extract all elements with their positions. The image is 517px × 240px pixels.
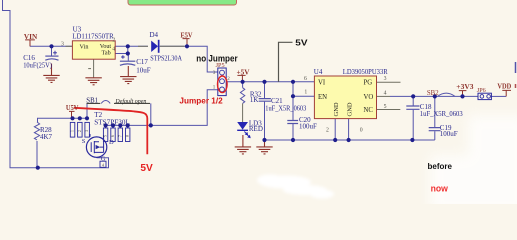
svg-text:3: 3 (85, 130, 89, 132)
svg-text:U4: U4 (314, 68, 323, 76)
svg-text:+5V: +5V (237, 67, 251, 76)
svg-text:VI: VI (318, 80, 326, 87)
svg-text:LD1117S50TR: LD1117S50TR (72, 33, 114, 41)
svg-text:GND: GND (347, 102, 354, 116)
svg-text:1: 1 (71, 130, 75, 132)
svg-text:SB2: SB2 (427, 90, 439, 97)
svg-text:LD39050PU33R: LD39050PU33R (343, 68, 388, 76)
svg-text:G: G (101, 156, 106, 163)
svg-text:2: 2 (326, 127, 329, 133)
svg-text:7: 7 (118, 135, 122, 137)
svg-text:+3V3: +3V3 (456, 83, 474, 91)
svg-text:5V: 5V (295, 38, 308, 48)
svg-text:JP6: JP6 (477, 87, 486, 94)
svg-text:4K7: 4K7 (40, 133, 53, 141)
svg-text:100uF: 100uF (299, 123, 317, 131)
svg-text:1: 1 (304, 89, 307, 95)
svg-text:EN: EN (318, 94, 327, 101)
svg-text:6: 6 (111, 135, 115, 137)
svg-text:PG: PG (364, 80, 373, 87)
svg-text:no Jumper: no Jumper (196, 54, 238, 64)
svg-text:VIN: VIN (24, 32, 38, 41)
svg-text:4: 4 (112, 46, 115, 52)
svg-text:5V: 5V (140, 162, 152, 174)
svg-text:before: before (428, 161, 453, 171)
svg-text:NC: NC (364, 107, 374, 114)
svg-text:Tab: Tab (102, 49, 111, 56)
svg-text:U5V: U5V (66, 103, 79, 112)
svg-text:0: 0 (360, 127, 363, 133)
svg-text:1K: 1K (250, 96, 259, 104)
svg-text:10uF(25V): 10uF(25V) (23, 62, 52, 70)
svg-text:4: 4 (102, 164, 104, 168)
svg-text:GND: GND (333, 102, 340, 116)
svg-text:Default open: Default open (114, 98, 146, 105)
svg-text:100uF: 100uF (440, 130, 458, 138)
svg-text:now: now (431, 183, 449, 194)
svg-text:SB1: SB1 (86, 98, 98, 105)
svg-text:5: 5 (104, 135, 108, 137)
svg-text:STPS2L30A: STPS2L30A (150, 54, 182, 62)
svg-text:STS7PF30L: STS7PF30L (94, 118, 130, 126)
svg-text:RED: RED (249, 125, 263, 133)
svg-text:2: 2 (78, 130, 82, 132)
svg-text:1uF_X5R_0603: 1uF_X5R_0603 (265, 105, 306, 113)
svg-text:6: 6 (304, 76, 307, 82)
svg-text:S: S (82, 138, 86, 145)
svg-text:2: 2 (112, 38, 115, 44)
svg-text:VO: VO (364, 94, 374, 101)
svg-text:VDD: VDD (497, 82, 511, 91)
svg-text:1uF_X5R_0603: 1uF_X5R_0603 (420, 110, 463, 118)
svg-text:Vin: Vin (80, 44, 89, 51)
svg-text:C17: C17 (136, 58, 148, 66)
svg-text:D4: D4 (150, 31, 159, 39)
svg-text:5: 5 (384, 104, 387, 110)
svg-text:Jumper 1/2: Jumper 1/2 (179, 96, 223, 105)
svg-text:E5V: E5V (181, 30, 194, 39)
svg-text:3: 3 (61, 42, 64, 48)
svg-text:D: D (109, 139, 114, 146)
svg-text:10uF: 10uF (136, 66, 151, 74)
svg-text:3: 3 (384, 76, 387, 82)
svg-text:8: 8 (126, 135, 130, 137)
svg-text:4: 4 (384, 90, 387, 96)
